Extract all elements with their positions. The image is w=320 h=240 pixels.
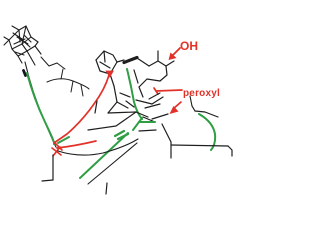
- red strand lower horizontal: [57, 141, 96, 148]
- black under O-O: [149, 93, 160, 99]
- green bond G1 long left curve: [27, 73, 54, 144]
- red x mark at junction: [52, 143, 62, 156]
- red diagonal R5: [173, 102, 181, 109]
- red bond to OH: [172, 48, 180, 56]
- green link kink down to arrowhead zone: [133, 118, 142, 130]
- junction long U-curve to kink: [58, 139, 138, 155]
- left long black bond beside green: [25, 62, 56, 147]
- central cage: [88, 86, 171, 142]
- green bond G5 right of peak down to kink: [127, 69, 142, 119]
- green kink horizontal segment: [139, 121, 155, 123]
- green right arc G6: [199, 114, 215, 150]
- center top peak: [96, 51, 124, 86]
- red arrow R1 big arc: [54, 75, 109, 143]
- upper-right carbon chain to OH: [134, 51, 174, 97]
- dark blob at cluster base: [24, 71, 26, 76]
- junction vertical and tick: [42, 155, 107, 194]
- svg-text:peroxyl: peroxyl: [183, 88, 220, 99]
- top-left cage cluster: [4, 26, 41, 65]
- wire cluster to center chain: [41, 57, 89, 96]
- svg-text:OH: OH: [180, 39, 198, 53]
- wedge into upper right chain: [124, 58, 137, 63]
- green junction stub G2: [58, 137, 69, 143]
- green arrowhead chevrons G3 tip: [115, 131, 128, 139]
- right chain to green arc: [192, 106, 218, 117]
- bottom right hook: [171, 142, 232, 158]
- green long bottom arrow G3: [80, 133, 128, 178]
- black diagonal beside G3: [88, 143, 137, 184]
- red O-O bond: [156, 90, 182, 91]
